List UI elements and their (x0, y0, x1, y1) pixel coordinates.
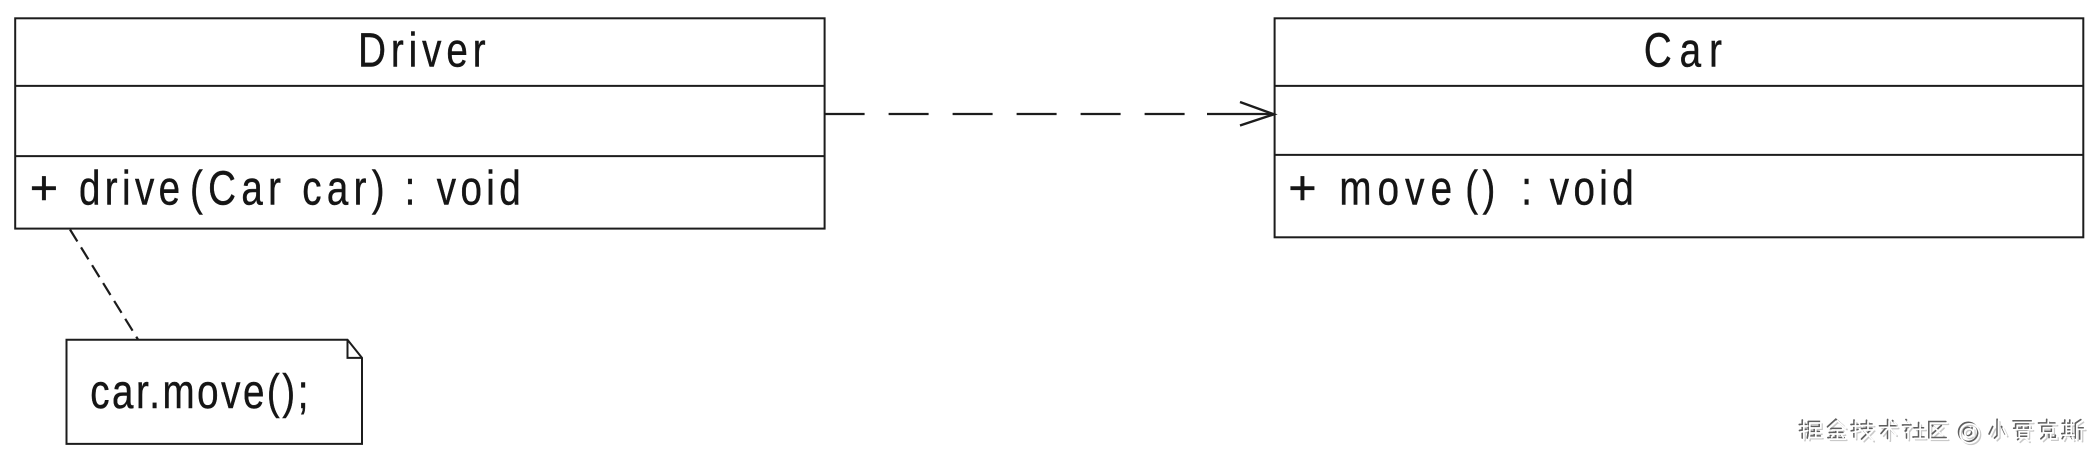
watermark white emboss layer (1801, 421, 2085, 443)
Car compartment divider 1 (1275, 85, 2084, 87)
Car operation text: + move () : void (1288, 161, 1638, 215)
svg-text:(): () (1465, 161, 1499, 215)
note body (UML note with dog-ear) (67, 340, 363, 444)
dependency arrow dashed shaft from Driver to Car (825, 113, 1207, 115)
svg-text:Driver: Driver (358, 23, 490, 77)
Car compartment divider 2 (1275, 154, 2084, 156)
svg-text::: : (1521, 161, 1536, 215)
class box Driver frame (15, 18, 824, 228)
svg-text:void: void (437, 161, 525, 215)
note dog-ear fold (348, 340, 363, 358)
svg-text:(Car car): (Car car) (190, 161, 390, 215)
watermark soft shadow layer (1802, 422, 2086, 444)
watermark dark layer (1799, 419, 2083, 441)
class box Car frame (1275, 18, 2084, 237)
Driver compartment divider 1 (15, 85, 824, 87)
svg-text:+: + (30, 161, 64, 215)
svg-text::: : (405, 161, 420, 215)
dependency arrow solid end segment (1207, 113, 1273, 115)
svg-text:drive: drive (79, 161, 184, 215)
note anchor dashed line (70, 230, 138, 340)
Driver compartment divider 2 (15, 155, 824, 157)
svg-text:move: move (1339, 161, 1458, 215)
svg-text:Car: Car (1644, 23, 1730, 77)
Driver operation text: + drive (Car car) : void (30, 161, 525, 215)
svg-text:+: + (1288, 162, 1322, 216)
svg-text:void: void (1550, 161, 1638, 215)
svg-text:car.move();: car.move(); (90, 365, 311, 419)
dependency arrowhead (open V) (1240, 102, 1274, 126)
